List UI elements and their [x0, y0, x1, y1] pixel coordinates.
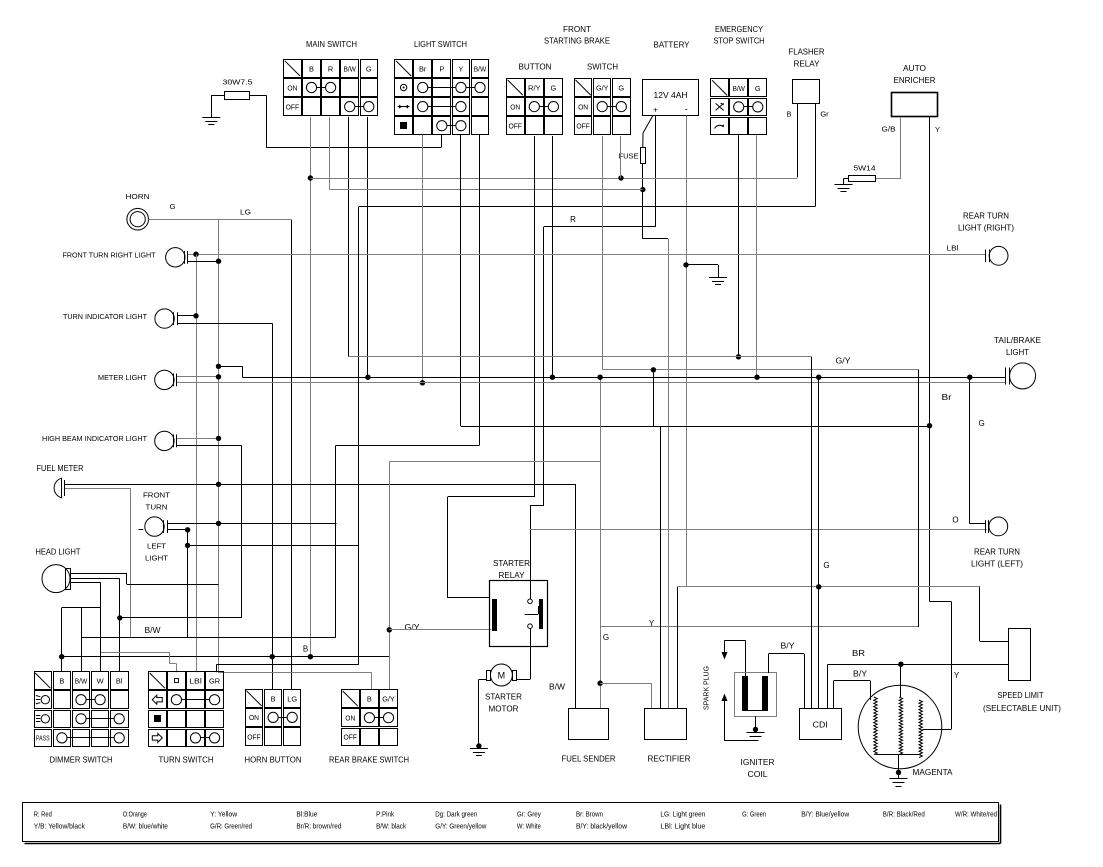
svg-text:RELAY: RELAY: [794, 60, 821, 69]
wire Y jog to magneto: [930, 601, 952, 603]
speed limit unit: [1009, 629, 1031, 681]
wire rear turn left to black bus: [969, 377, 971, 524]
svg-text:LIGHT: LIGHT: [1006, 348, 1029, 357]
wire magneto center coil up: [900, 664, 902, 697]
wire LG vertical down to horn button: [291, 220, 293, 690]
svg-text:G/Y: G/Y: [836, 357, 852, 366]
legend box: [23, 803, 1001, 844]
svg-text:R: R: [328, 64, 333, 73]
junction on G vertical: [216, 259, 221, 264]
wire starter motor to ground: [479, 679, 486, 681]
svg-text:(SELECTABLE UNIT): (SELECTABLE UNIT): [983, 704, 1061, 713]
wire R branch down to starter relay: [543, 227, 545, 506]
spark plug gap lower: [722, 694, 728, 702]
rectifier: [645, 709, 687, 740]
svg-text:B: B: [367, 695, 372, 704]
svg-text:FUSE: FUSE: [619, 152, 639, 161]
svg-text:B/W: blue/white: B/W: blue/white: [123, 824, 168, 831]
wire front turn left top: [167, 523, 336, 525]
svg-text:Y: Y: [649, 619, 655, 628]
svg-text:OFF: OFF: [247, 732, 261, 741]
meter light bulb: [155, 370, 177, 389]
wire GR line to turn switch: [217, 664, 359, 666]
junction G column / black bus: [365, 375, 370, 380]
junction meter step lower: [216, 374, 221, 379]
svg-text:OFF: OFF: [344, 733, 358, 742]
switch table TURN SWITCH: [149, 672, 224, 747]
wire to ground from battery -: [686, 264, 718, 266]
wire G/Y bus y370: [603, 369, 919, 371]
svg-text:G: G: [755, 84, 761, 93]
svg-text:RELAY: RELAY: [499, 571, 526, 580]
wire main switch G column down: [367, 117, 369, 377]
junction switch G col / gray bus: [618, 175, 623, 180]
wire rectifier right feed: [677, 587, 679, 709]
svg-text:FLASHER: FLASHER: [789, 48, 825, 57]
wire head light low to dimmer W: [71, 582, 101, 584]
wire magneto to ground: [898, 755, 900, 779]
wire horn to LG corner: [149, 219, 292, 221]
junction B column / B bus: [308, 654, 313, 659]
svg-text:ENRICHER: ENRICHER: [894, 76, 936, 85]
svg-text:LBl: LBl: [189, 677, 202, 686]
wire fuel meter bottom down: [130, 488, 132, 637]
svg-text:B: B: [59, 677, 64, 686]
svg-text:LEFT: LEFT: [147, 542, 166, 551]
wire relay contact to starter motor: [530, 629, 532, 680]
svg-text:METER LIGHT: METER LIGHT: [98, 373, 147, 382]
svg-text:MOTOR: MOTOR: [489, 705, 519, 714]
turn indicator light bulb: [155, 309, 178, 328]
svg-text:W: White: W: White: [517, 824, 541, 831]
wire flasher B down: [797, 104, 799, 178]
svg-text:OFF: OFF: [576, 122, 590, 131]
switch table EMERGENCY STOP SWITCH: [711, 79, 767, 135]
svg-text:Br: Brown: Br: Brown: [576, 812, 603, 819]
svg-text:G: G: [618, 84, 624, 93]
svg-text:LIGHT SWITCH: LIGHT SWITCH: [414, 40, 467, 49]
svg-text:G: G: [366, 64, 372, 73]
svg-text:TAIL/BRAKE: TAIL/BRAKE: [994, 336, 1041, 345]
switch table LIGHT SWITCH: [395, 60, 489, 135]
svg-text:HEAD LIGHT: HEAD LIGHT: [36, 548, 81, 557]
junction front turn left / G vertical: [216, 521, 221, 526]
junction Y enricher / Y line: [927, 423, 932, 428]
svg-text:LG: LG: [240, 208, 251, 217]
svg-text:IGNITER: IGNITER: [741, 758, 775, 767]
wire LBl vertical: [196, 254, 198, 672]
svg-text:GR: GR: [209, 677, 220, 686]
ground 30W7.5: [202, 117, 220, 119]
starter motor: [487, 664, 517, 686]
switch table FRONT STARTING BRAKE BUTTON: [507, 79, 563, 135]
svg-text:LBl: Light blue: LBl: Light blue: [660, 824, 705, 831]
svg-text:B/Y: black/yellow: B/Y: black/yellow: [576, 824, 628, 831]
svg-text:Y/B: Yellow/black: Y/B: Yellow/black: [34, 824, 85, 831]
svg-text:FRONT: FRONT: [563, 25, 591, 34]
svg-text:ON: ON: [510, 102, 520, 111]
svg-text:B: B: [271, 694, 276, 703]
svg-text:B/Y: B/Y: [853, 670, 868, 679]
wire meter light top stub: [177, 376, 219, 378]
svg-text:R/Y: R/Y: [528, 84, 541, 93]
svg-text:W/R: White/red: W/R: White/red: [955, 812, 997, 819]
igniter coil: [735, 673, 777, 717]
wire main switch B/W column down: [348, 117, 350, 357]
head light bulb: [42, 565, 71, 593]
wire high beam to dimmer Bl line: [241, 446, 243, 618]
svg-text:DIMMER SWITCH: DIMMER SWITCH: [50, 756, 113, 765]
magneto coil right: [919, 700, 922, 758]
svg-text:B/W: B/W: [474, 64, 487, 73]
svg-text:LG: Light green: LG: Light green: [660, 812, 705, 819]
wire main switch B column down: [310, 117, 312, 657]
wire B/W bus y637: [82, 637, 336, 639]
svg-text:MAIN SWITCH: MAIN SWITCH: [306, 40, 357, 49]
svg-text:BUTTON: BUTTON: [519, 63, 552, 72]
svg-text:CDI: CDI: [813, 720, 828, 730]
wire R bus y189: [330, 189, 643, 191]
starter relay: [490, 581, 548, 647]
svg-text:Gr: Gr: [820, 110, 829, 119]
junction dimmer Bl / high beam line: [117, 615, 122, 620]
svg-text:G/B: G/B: [882, 125, 896, 134]
ground 5W14: [835, 184, 853, 186]
svg-text:LBl: LBl: [947, 244, 959, 253]
svg-text:Bl:Blue: Bl:Blue: [296, 812, 317, 819]
svg-text:ON: ON: [287, 83, 297, 92]
junction y587 / CDI wire: [816, 584, 821, 589]
junction turn indicator / LBl: [193, 313, 198, 318]
wire dimmer B vertical: [61, 608, 63, 672]
svg-text:LG: LG: [287, 694, 297, 703]
switch table REAR BRAKE SWITCH: [342, 690, 398, 746]
wire y587 line: [678, 586, 980, 588]
wire y627 line: [600, 626, 919, 628]
svg-text:Dg: Dark green: Dg: Dark green: [435, 812, 477, 819]
svg-text:G: G: [170, 202, 176, 211]
wire front turn right bottom: [188, 261, 219, 263]
rear turn light right bulb: [986, 246, 1008, 265]
junction G line / black bus: [597, 375, 602, 380]
junction G/Y bus: [651, 367, 656, 372]
svg-text:SPEED LIMIT: SPEED LIMIT: [998, 691, 1044, 700]
svg-text:B: B: [303, 645, 308, 654]
svg-text:O: O: [952, 516, 958, 525]
wire dimmer B/W vertical: [81, 608, 83, 672]
svg-text:P:Pink: P:Pink: [376, 812, 394, 819]
svg-text:MAGENTA: MAGENTA: [913, 768, 954, 777]
wire Gr bus y206: [359, 206, 815, 208]
svg-text:G: G: [551, 84, 557, 93]
wire relay coil upper left: [448, 597, 490, 599]
svg-text:Gr: Grey: Gr: Grey: [517, 812, 541, 819]
front turn right light bulb: [166, 248, 188, 267]
junction BR / magneto center coil: [898, 662, 903, 667]
svg-text:ON: ON: [249, 713, 259, 722]
wire Y line y426: [461, 426, 930, 428]
battery 12V 4AH: [643, 80, 699, 116]
svg-text:RECTIFIER: RECTIFIER: [648, 755, 691, 764]
svg-text:REAR BRAKE SWITCH: REAR BRAKE SWITCH: [329, 756, 409, 765]
wire gray y357 line: [349, 356, 812, 358]
junction fuse/R bus: [640, 187, 645, 192]
svg-text:B/R: Black/Red: B/R: Black/Red: [883, 812, 925, 819]
svg-text:COIL: COIL: [748, 770, 769, 779]
junction black bus / CDI wire: [816, 375, 821, 380]
ground starter motor: [470, 748, 488, 750]
svg-text:5W14: 5W14: [854, 164, 876, 173]
wire 5W14 to ground: [844, 178, 849, 180]
svg-text:TURN INDICATOR LIGHT: TURN INDICATOR LIGHT: [63, 312, 147, 321]
wire battery + down to R line: [655, 116, 657, 227]
svg-text:B/W: B/W: [549, 683, 565, 692]
wire turn switch square feed: [101, 652, 170, 654]
wire y618 dimmer Bl to high beam: [120, 617, 242, 619]
svg-text:Bl: Bl: [116, 677, 123, 686]
svg-text:R: Red: R: Red: [34, 812, 52, 819]
svg-text:SWITCH: SWITCH: [587, 63, 618, 72]
wire rectifier feed from Y line: [660, 426, 662, 709]
wire y587 to speed limit: [979, 587, 981, 642]
svg-text:12V 4AH: 12V 4AH: [654, 90, 688, 100]
svg-text:REAR TURN: REAR TURN: [974, 548, 1020, 557]
svg-text:STOP SWITCH: STOP SWITCH: [714, 37, 765, 46]
svg-text:G: G: [823, 561, 829, 570]
svg-text:FUEL METER: FUEL METER: [37, 464, 84, 473]
svg-text:B: B: [309, 64, 314, 73]
svg-text:Br/R: brown/red: Br/R: brown/red: [296, 824, 341, 831]
wire CDI feed 1 from gray line: [811, 357, 813, 709]
svg-text:B/W: B/W: [75, 677, 88, 686]
svg-text:BR: BR: [852, 649, 865, 658]
junction Br column / meter wire: [420, 380, 425, 385]
svg-text:Br: Br: [419, 64, 427, 73]
svg-text:BATTERY: BATTERY: [654, 41, 691, 50]
wire light switch B/W column down: [479, 135, 481, 446]
junction high beam / G vertical: [216, 436, 221, 441]
flasher relay: [789, 48, 825, 104]
wire front turn left bottom: [167, 529, 188, 531]
svg-text:OFF: OFF: [508, 122, 522, 131]
wire emergency G column down: [756, 135, 758, 377]
svg-text:B/Y: Blue/yellow: B/Y: Blue/yellow: [801, 812, 850, 819]
wire G/Y drop right: [918, 370, 920, 627]
wire BR line to speed limit: [828, 664, 1008, 666]
spark plug gap upper: [725, 640, 746, 642]
svg-text:LIGHT (LEFT): LIGHT (LEFT): [971, 560, 1023, 569]
switch table FRONT STARTING BRAKE SWITCH: [575, 79, 631, 135]
svg-text:M: M: [498, 671, 506, 681]
wire fuel meter top to fuel sender: [65, 484, 576, 486]
svg-text:O:Orange: O:Orange: [123, 812, 147, 819]
svg-text:Y: Y: [458, 64, 463, 73]
svg-text:HIGH BEAM INDICATOR LIGHT: HIGH BEAM INDICATOR LIGHT: [42, 434, 147, 443]
svg-text:B/W: B/W: [343, 64, 356, 73]
wire front brake switch G column down: [620, 136, 622, 178]
wire G branch to rectifier: [597, 681, 602, 686]
tail/brake light bulb: [1006, 363, 1036, 389]
svg-text:AUTO: AUTO: [903, 64, 926, 73]
svg-text:FRONT TURN RIGHT LIGHT: FRONT TURN RIGHT LIGHT: [63, 251, 156, 260]
svg-text:Y: Y: [954, 671, 960, 680]
wire gray bus y178: [310, 178, 797, 180]
wire left light vertical: [187, 530, 189, 638]
wire enricher G/B down to 5W14: [900, 117, 902, 179]
junction front turn left bottom: [185, 527, 190, 532]
front turn left light bulb: [139, 517, 168, 536]
svg-text:W: W: [97, 677, 104, 686]
wire igniter to ground: [755, 716, 757, 729]
wire light switch Br column down: [422, 135, 424, 383]
junction B column / gray bus: [308, 175, 313, 180]
svg-text:OFF: OFF: [286, 102, 300, 111]
junction black bus / rear turn left wire: [967, 375, 972, 380]
wire G/Y feed line y461: [389, 461, 600, 463]
wire meter step: [219, 366, 243, 368]
wire battery + diagonal to fuse: [643, 116, 653, 134]
junction magneto ground: [896, 770, 901, 775]
wire light switch Y column down: [460, 135, 462, 427]
cdi unit CDI: [800, 709, 842, 740]
junction dimmer B / B bus: [59, 654, 64, 659]
ground igniter coil: [747, 732, 765, 734]
wire turn indicator bottom: [177, 323, 272, 325]
magneto MAGENTA: [858, 685, 942, 769]
svg-text:EMERGENCY: EMERGENCY: [715, 25, 764, 34]
svg-text:P: P: [439, 64, 444, 73]
svg-text:R: R: [570, 215, 576, 224]
wire high beam top: [177, 438, 219, 440]
wire enricher Y down: [929, 117, 931, 602]
wire fuse staircase right: [643, 238, 668, 240]
wire B bus y656: [62, 656, 390, 658]
junction turn signal feed: [193, 252, 198, 257]
junction button G / black bus: [550, 375, 555, 380]
svg-text:HORN: HORN: [126, 192, 150, 201]
svg-text:Y: Y: [935, 125, 940, 134]
junction G/Y / relay coil line: [387, 627, 392, 632]
fuse: [619, 148, 646, 164]
junction emergency G / black bus: [754, 375, 759, 380]
svg-text:G: Green: G: Green: [742, 812, 766, 819]
junction battery - ground branch: [683, 262, 688, 267]
wire 30W7.5 to light switch P: [266, 147, 441, 149]
fuel sender: [569, 709, 609, 740]
svg-text:B/Y: B/Y: [781, 642, 796, 651]
junction meter step upper: [216, 364, 221, 369]
wire meter light bottom to tail light: [177, 382, 1005, 384]
svg-text:TURN SWITCH: TURN SWITCH: [159, 756, 214, 765]
svg-text:G/Y: G/Y: [405, 623, 421, 632]
wire emergency B/W column down: [738, 135, 740, 356]
svg-text:G: G: [603, 633, 609, 642]
svg-text:HORN BUTTON: HORN BUTTON: [245, 756, 302, 765]
wire B/W light line y445: [336, 445, 480, 447]
magneto coil left: [874, 697, 877, 755]
wire O line to rear turn left light: [530, 529, 987, 531]
wire B/W light drop: [335, 446, 337, 638]
wire front brake switch G/Y column down: [602, 136, 604, 370]
wire turn indicator top: [177, 315, 196, 317]
magneto coil bottom bar: [876, 754, 921, 756]
fuel meter: [54, 478, 64, 498]
wire head light top (W): [71, 573, 127, 575]
svg-text:G/R: Green/red: G/R: Green/red: [210, 824, 252, 831]
svg-text:Y: Yellow: Y: Yellow: [210, 812, 238, 819]
wire main switch R column down: [329, 117, 331, 190]
wire G fuel sender vertical: [600, 377, 602, 709]
wire front turn right top to rear turn right: [188, 254, 986, 256]
svg-text:B/W: black: B/W: black: [376, 824, 406, 831]
ground magneto: [890, 778, 908, 780]
wire black bus y377 to tail light: [242, 377, 1005, 379]
magneto coil center: [899, 697, 902, 755]
junction left light / y545 line: [185, 543, 190, 548]
wire Y branch down from G/Y junction: [653, 370, 655, 426]
wire flasher Gr down: [815, 104, 817, 207]
wire battery - down: [686, 116, 688, 587]
svg-text:LIGHT: LIGHT: [145, 554, 168, 563]
wire relay coil lower line: [389, 629, 491, 631]
wire R jog to relay contact: [530, 505, 544, 507]
wire head light mid to dimmer Bl: [71, 578, 120, 580]
wire B/Y CDI to magneto: [833, 681, 835, 709]
svg-text:B: B: [786, 110, 791, 119]
wire rear brake G/Y vertical: [389, 461, 391, 690]
wire R line horizontal: [544, 226, 655, 228]
resistor 30W7.5: [223, 78, 253, 100]
auto enricher: [892, 64, 938, 117]
junction B bus / horn button B: [270, 654, 275, 659]
wire 30W7.5 right: [250, 95, 266, 97]
wire fuel meter bottom: [65, 488, 131, 490]
svg-text:STARTER: STARTER: [485, 693, 522, 702]
horn: [127, 208, 149, 230]
wire flasher Gr chain vertical: [358, 207, 360, 665]
svg-text:FRONT: FRONT: [143, 491, 170, 500]
svg-text:LIGHT (RIGHT): LIGHT (RIGHT): [958, 224, 1014, 233]
resistor 5W14: [849, 164, 876, 182]
wire fuel sender vertical: [575, 484, 577, 709]
wire fuse line down to rectifier: [668, 239, 670, 709]
svg-text:STARTER: STARTER: [493, 559, 530, 568]
svg-text:+: +: [653, 106, 658, 115]
junction fuel meter / G vertical: [216, 482, 221, 487]
wire y545 line: [188, 545, 359, 547]
svg-text:FUEL SENDER: FUEL SENDER: [562, 755, 616, 764]
wire high beam bottom: [177, 445, 242, 447]
svg-text:SPARK PLUG: SPARK PLUG: [702, 666, 711, 710]
wire turn indicator bottom vertical: [272, 323, 274, 689]
wire G vertical: [218, 220, 220, 673]
svg-text:STARTING BRAKE: STARTING BRAKE: [544, 37, 610, 46]
svg-text:G/Y: G/Y: [382, 695, 395, 704]
junction igniter ground / spark plug return: [753, 727, 758, 732]
switch table MAIN SWITCH: [284, 60, 378, 116]
svg-text:Br: Br: [942, 393, 952, 402]
svg-text:G/Y: G/Y: [596, 84, 609, 93]
svg-text:ON: ON: [345, 714, 355, 723]
svg-text:REAR TURN: REAR TURN: [963, 212, 1009, 221]
svg-text:PASS: PASS: [36, 734, 50, 743]
switch table HORN BUTTON: [246, 690, 301, 746]
svg-text:B/W: B/W: [145, 626, 161, 635]
wire CDI feed 2 from black bus: [818, 377, 820, 709]
wire 30W7.5 left to ground: [211, 95, 224, 97]
wire gray line y673 to rear brake B: [219, 672, 372, 674]
wire y607 jumper: [62, 607, 101, 609]
